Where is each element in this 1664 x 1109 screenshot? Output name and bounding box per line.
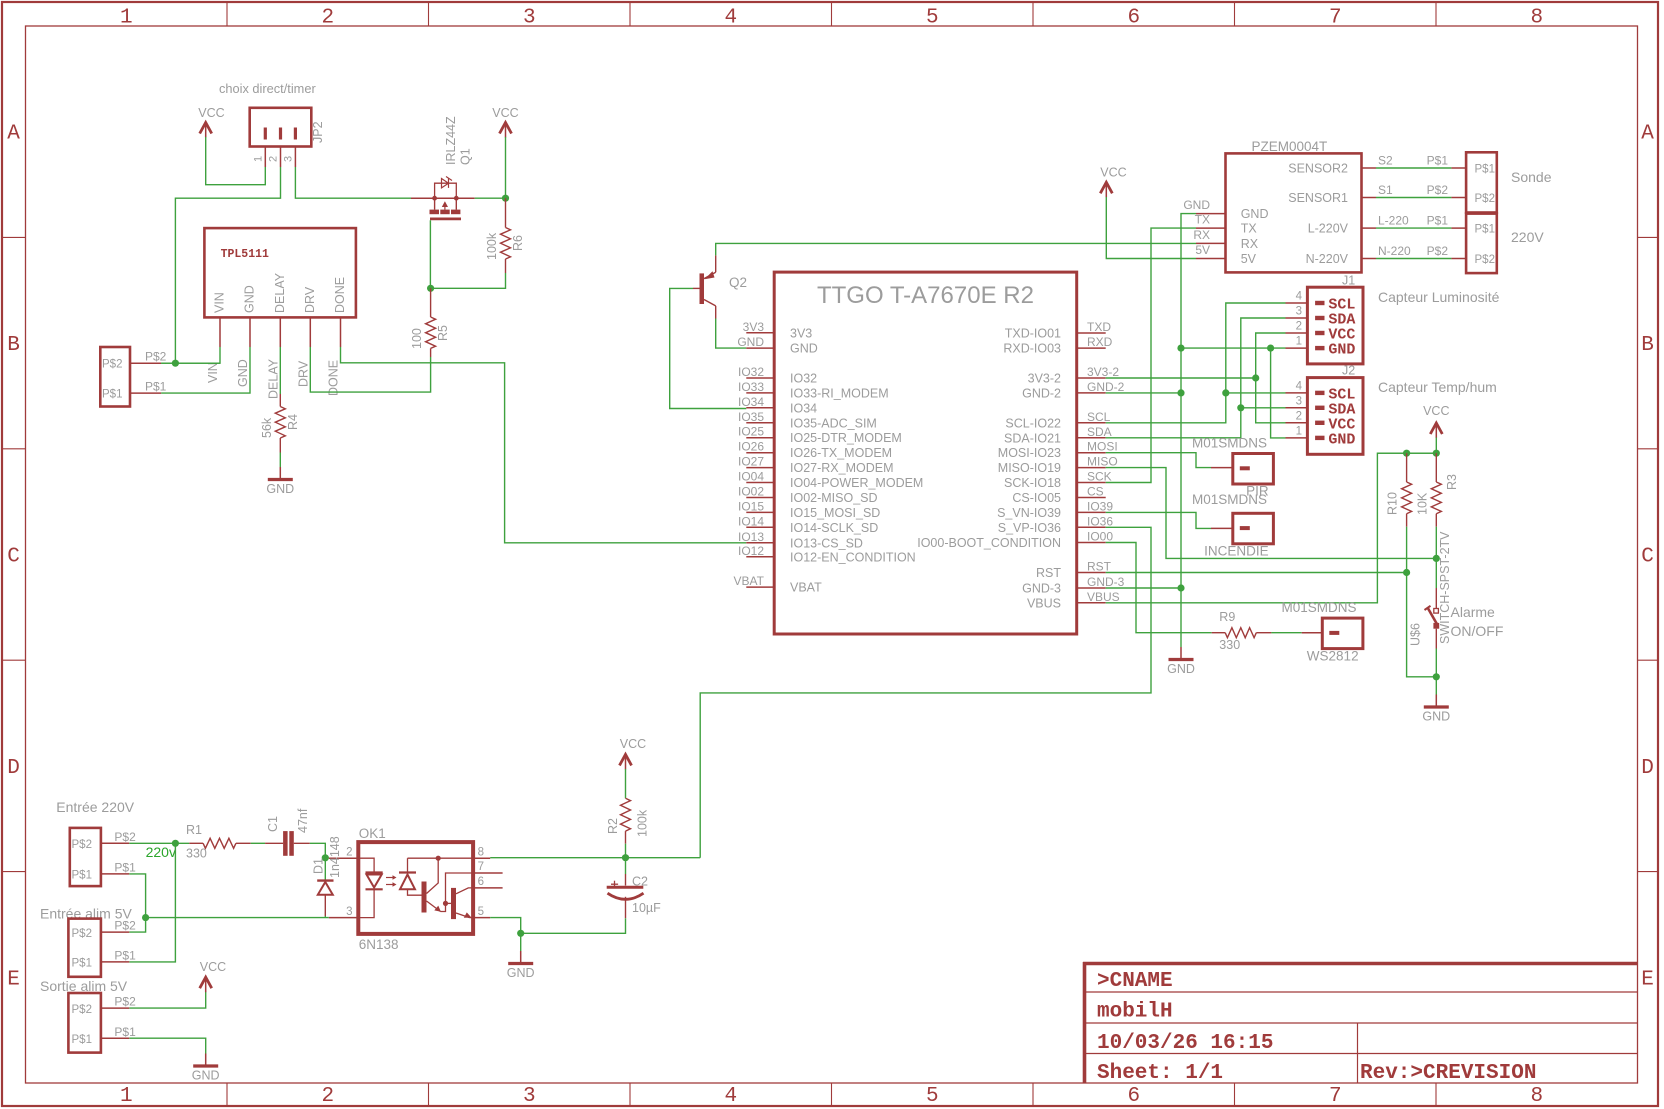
label WS2812	[1307, 649, 1359, 664]
wire GND pin to P$1 row	[161, 347, 250, 393]
wire 5V net row	[146, 917, 329, 919]
power VCC (R2)	[620, 737, 647, 769]
svg-text:IO26-TX_MODEM: IO26-TX_MODEM	[790, 446, 892, 460]
OK1 internal symbol	[358, 856, 473, 920]
svg-text:Sonde: Sonde	[1511, 169, 1552, 185]
OK1 pin 3 number	[346, 906, 352, 918]
svg-text:RXD-IO03: RXD-IO03	[1003, 342, 1061, 356]
connector PINHD left of TPL	[100, 347, 130, 407]
resistor R6	[501, 198, 511, 273]
TPL5111 DRV stub	[309, 317, 311, 347]
Q1 type label IRLZ44Z	[444, 116, 458, 165]
wire MISO net	[1106, 468, 1437, 559]
P$1 outer label (alim in)	[114, 948, 136, 962]
svg-text:mobilH: mobilH	[1097, 1001, 1173, 1024]
svg-text:IO15_MOSI_SD: IO15_MOSI_SD	[790, 506, 880, 520]
svg-text:3: 3	[346, 906, 352, 918]
R4 name	[286, 414, 300, 430]
wire C1 to D1 node	[310, 843, 326, 858]
wire P$2 to junction	[161, 362, 220, 364]
svg-text:3V3: 3V3	[743, 320, 765, 334]
IC TTGO T-A7670E R2 box	[774, 272, 1076, 634]
svg-text:1: 1	[253, 156, 265, 162]
svg-text:8: 8	[1530, 7, 1543, 30]
svg-text:3: 3	[1296, 306, 1302, 318]
svg-text:DONE: DONE	[327, 360, 341, 396]
label ON/OFF	[1451, 623, 1504, 639]
TPL5111 pin name VIN	[213, 292, 227, 313]
svg-text:choix direct/timer: choix direct/timer	[219, 81, 316, 96]
svg-text:GND: GND	[192, 1069, 220, 1083]
svg-text:VBUS: VBUS	[1087, 590, 1120, 604]
svg-text:3: 3	[523, 1085, 536, 1108]
svg-text:TTGO T-A7670E R2: TTGO T-A7670E R2	[817, 282, 1034, 309]
label Alarme	[1451, 604, 1496, 620]
JP2 pin 1 stub	[264, 147, 266, 168]
svg-text:1n4148: 1n4148	[328, 836, 342, 878]
svg-text:P$1: P$1	[145, 380, 167, 394]
svg-text:2: 2	[321, 7, 334, 30]
svg-text:GND-2: GND-2	[1022, 386, 1061, 400]
svg-text:IO00: IO00	[1087, 530, 1113, 544]
TTGO left pin IO33	[738, 380, 889, 401]
wire node to IO36 riser	[626, 857, 701, 859]
junction VCC/R3 top	[1433, 450, 1440, 457]
TPL5111 pin name DELAY	[273, 272, 287, 313]
TPL5111 pin name GND	[243, 285, 257, 313]
P$1 outer label (220V in)	[114, 860, 136, 874]
svg-text:7: 7	[1329, 7, 1342, 30]
svg-text:330: 330	[186, 847, 207, 861]
svg-text:220v: 220v	[146, 844, 176, 860]
junction MISO/R3/switch	[1433, 555, 1440, 562]
TTGO right pin IO39	[997, 499, 1113, 520]
P$1 inner label (TPL conn)	[102, 389, 122, 401]
TPL5111 outer label DRV	[296, 360, 310, 387]
P$2 wire label (220V)	[1427, 244, 1449, 258]
svg-text:J2: J2	[1342, 364, 1355, 378]
label Entree 220V	[56, 799, 134, 815]
wire R9 to WS2812	[1271, 632, 1301, 634]
OK1 pin 8 number	[478, 846, 484, 858]
svg-text:VCC: VCC	[620, 737, 646, 751]
junction VIN/JP2.2/P$2	[172, 360, 179, 367]
OK1 pin 2 number	[346, 846, 352, 858]
TTGO right pin SDA	[1004, 425, 1112, 446]
svg-text:R5: R5	[436, 325, 450, 341]
svg-text:5: 5	[926, 7, 939, 30]
svg-text:3V3: 3V3	[790, 326, 812, 340]
svg-text:SDA-IO21: SDA-IO21	[1004, 431, 1061, 445]
svg-text:RST: RST	[1036, 566, 1061, 580]
svg-text:GND: GND	[1167, 662, 1195, 676]
wire GND-3 to GND net	[1106, 587, 1181, 589]
svg-text:P$2: P$2	[72, 928, 92, 940]
svg-text:3: 3	[283, 156, 295, 162]
svg-text:5V: 5V	[1195, 243, 1210, 257]
svg-text:Q1: Q1	[459, 148, 473, 165]
svg-text:MOSI: MOSI	[1087, 440, 1118, 454]
svg-text:IO14: IO14	[738, 514, 764, 528]
svg-text:R3: R3	[1445, 474, 1459, 490]
svg-text:6: 6	[1127, 7, 1140, 30]
PZEM left pin 5V	[1195, 243, 1256, 266]
svg-text:3V3-2: 3V3-2	[1028, 372, 1061, 386]
C2 name	[632, 874, 648, 888]
svg-text:C: C	[1641, 546, 1654, 569]
svg-text:GND: GND	[236, 359, 250, 387]
label 6N138	[359, 937, 399, 952]
svg-text:VCC: VCC	[1100, 166, 1126, 180]
svg-text:S1: S1	[1378, 183, 1393, 197]
svg-text:IO02-MISO_SD: IO02-MISO_SD	[790, 491, 878, 505]
svg-text:IO27: IO27	[738, 455, 764, 469]
svg-text:IO32: IO32	[790, 372, 817, 386]
svg-text:N-220V: N-220V	[1306, 252, 1349, 266]
svg-text:C2: C2	[632, 874, 648, 888]
connector JP2	[250, 108, 312, 147]
wire S2 to Sonde	[1376, 167, 1451, 169]
wire J2 SCL branch	[1226, 392, 1286, 394]
P$2 outer label (220V in)	[114, 830, 136, 844]
svg-text:A: A	[1641, 123, 1654, 146]
svg-text:SCK: SCK	[1087, 470, 1112, 484]
svg-text:P$1: P$1	[1475, 224, 1495, 236]
svg-text:GND: GND	[1422, 710, 1450, 724]
P$1 wire label (Sonde)	[1427, 154, 1449, 168]
JP2 pin 2 stub	[280, 147, 282, 168]
svg-text:IO02: IO02	[738, 485, 764, 499]
svg-text:A: A	[7, 123, 20, 146]
svg-text:R6: R6	[511, 235, 525, 251]
svg-text:IO12: IO12	[738, 544, 764, 558]
TTGO left pin GND	[737, 335, 817, 356]
junction GND at GND-3 row	[1177, 584, 1184, 591]
TTGO left pin IO32	[738, 365, 817, 386]
title block sheet	[1097, 1062, 1223, 1085]
junction 5V net	[142, 914, 149, 921]
svg-text:P$1: P$1	[1475, 164, 1495, 176]
ground below OK1	[507, 951, 535, 980]
svg-text:P$2: P$2	[102, 359, 122, 371]
svg-text:4: 4	[1296, 380, 1303, 392]
title block document name	[1097, 1001, 1173, 1024]
R9 name	[1219, 610, 1235, 624]
junction RST/R10	[1403, 569, 1410, 576]
svg-text:2: 2	[268, 156, 280, 162]
TTGO left pin IO02	[738, 485, 878, 506]
optocoupler OK1 box	[358, 842, 473, 934]
label M01SMDNS (PIR)	[1192, 436, 1267, 451]
svg-text:5: 5	[478, 906, 484, 918]
TPL5111 outer label DELAY	[266, 358, 280, 399]
svg-text:Sheet: 1/1: Sheet: 1/1	[1097, 1062, 1223, 1085]
C1 name	[266, 816, 280, 832]
svg-text:IO00-BOOT_CONDITION: IO00-BOOT_CONDITION	[917, 536, 1061, 550]
svg-text:IO15: IO15	[738, 499, 764, 513]
P$2 outer label (TPL conn)	[145, 350, 167, 364]
connector J2	[1286, 378, 1364, 455]
svg-text:DRV: DRV	[303, 286, 317, 313]
TPL conn P$2 stub	[130, 362, 161, 364]
svg-text:7: 7	[1329, 1085, 1342, 1108]
svg-text:IO27-RX_MODEM: IO27-RX_MODEM	[790, 461, 894, 475]
TTGO left pin IO26	[738, 440, 892, 461]
TTGO right pin CS	[1012, 485, 1105, 506]
wire R2 bottom to node	[625, 844, 627, 858]
R1 name	[186, 823, 202, 837]
PZEM right pin S1	[1288, 183, 1393, 205]
TTGO right pin SCL	[1005, 410, 1110, 431]
svg-text:P$2: P$2	[1427, 244, 1449, 258]
wire J2 GND branch	[1271, 348, 1286, 438]
PZEM left pin GND	[1183, 198, 1268, 221]
connector Sonde	[1451, 152, 1496, 212]
TPL5111 outer label DONE	[327, 360, 341, 396]
wire VCC to R2	[625, 769, 627, 798]
svg-text:Capteur Luminosité: Capteur Luminosité	[1378, 289, 1500, 305]
TTGO right pin SCK	[1004, 470, 1112, 491]
P$2 outer label (alim in)	[114, 919, 136, 933]
R9 value 330	[1219, 638, 1240, 652]
wire node to D1	[324, 858, 326, 880]
svg-text:IO12-EN_CONDITION: IO12-EN_CONDITION	[790, 550, 916, 564]
svg-text:VIN: VIN	[206, 362, 220, 383]
wire Q2 collector to PZEM RX	[716, 243, 1196, 255]
svg-text:10µF: 10µF	[632, 901, 661, 915]
TTGO left pin IO34	[738, 395, 817, 416]
svg-text:DRV: DRV	[296, 360, 310, 387]
R3 name	[1445, 474, 1459, 490]
svg-text:MISO: MISO	[1087, 455, 1118, 469]
svg-text:GND: GND	[790, 342, 818, 356]
svg-text:S_VP-IO36: S_VP-IO36	[998, 521, 1061, 535]
svg-text:C: C	[7, 546, 20, 569]
wire OK1.5 to GND	[490, 918, 521, 934]
wire sortie P$1 to GND	[129, 1038, 205, 1053]
svg-text:Capteur Temp/hum: Capteur Temp/hum	[1378, 379, 1497, 395]
connector Entree alim 5V	[68, 919, 129, 977]
junction SDA / J2.3	[1237, 404, 1244, 411]
svg-text:47nf: 47nf	[296, 808, 310, 833]
title block revision	[1360, 1062, 1536, 1085]
wire JP2.3 to Q1	[295, 167, 411, 198]
svg-text:VIN: VIN	[213, 292, 227, 313]
svg-text:VCC: VCC	[1423, 404, 1449, 418]
svg-text:R10: R10	[1386, 492, 1400, 515]
D1 value 1n4148	[328, 836, 342, 878]
PZEM title	[1252, 139, 1328, 154]
svg-text:TX: TX	[1241, 222, 1258, 236]
junction SCL / J2.4	[1222, 389, 1229, 396]
capacitor C2	[607, 874, 644, 918]
svg-text:10K: 10K	[1416, 492, 1430, 515]
svg-text:Q2: Q2	[729, 275, 747, 290]
TTGO right pin RXD	[1003, 335, 1112, 356]
svg-text:IO04: IO04	[738, 470, 764, 484]
svg-text:OK1: OK1	[359, 826, 386, 841]
junction J GND branch	[1267, 345, 1274, 352]
IC TPL5111 name	[221, 248, 269, 261]
svg-text:S_VN-IO39: S_VN-IO39	[997, 506, 1061, 520]
ground below GND net	[1167, 647, 1195, 676]
svg-text:6: 6	[1127, 1085, 1140, 1108]
wire GND-2 to GND net	[1106, 392, 1181, 394]
TTGO left pin VBAT	[734, 574, 823, 595]
svg-text:IO34: IO34	[738, 395, 764, 409]
wire R6 bottom to gate junction	[431, 273, 506, 288]
PZEM left pin RX	[1193, 228, 1258, 251]
svg-text:100: 100	[410, 328, 424, 349]
label 220V	[1511, 229, 1544, 245]
label J2	[1342, 364, 1355, 378]
module PIR M01SMDNS	[1211, 454, 1273, 485]
svg-text:R2: R2	[606, 818, 620, 834]
svg-text:GND-2: GND-2	[1087, 380, 1125, 394]
PZEM left pin TX	[1195, 213, 1258, 236]
wire node to OK1 pin2	[325, 857, 329, 859]
svg-text:P$2: P$2	[145, 350, 167, 364]
svg-text:L-220: L-220	[1378, 214, 1409, 228]
wire PZEM TX to SCK	[1106, 228, 1196, 482]
wire S1 to Sonde	[1376, 197, 1451, 199]
svg-text:220V: 220V	[1511, 229, 1544, 245]
PZEM right pin N-220	[1306, 244, 1411, 266]
svg-text:P$2: P$2	[1475, 193, 1495, 205]
OK1 pin 5 number	[478, 906, 484, 918]
P$2 wire label (Sonde)	[1427, 183, 1449, 197]
wire IO36 net	[700, 527, 1151, 857]
resistor R1	[189, 838, 250, 848]
svg-text:R4: R4	[286, 414, 300, 430]
TTGO right pin MISO	[998, 455, 1118, 476]
R5 value 100	[410, 328, 424, 349]
Q1 name label	[459, 148, 473, 165]
junction gate/R5/R6	[427, 285, 434, 292]
C2 value 10uF	[632, 901, 661, 915]
svg-text:TXD: TXD	[1087, 320, 1111, 334]
svg-text:DONE: DONE	[333, 277, 347, 313]
svg-text:1: 1	[1296, 336, 1302, 348]
power VCC (sortie)	[200, 960, 227, 992]
TTGO left pin IO13	[738, 530, 863, 551]
svg-text:4: 4	[724, 7, 737, 30]
svg-text:VBAT: VBAT	[734, 574, 765, 588]
svg-text:2: 2	[321, 1085, 334, 1108]
svg-text:P$1: P$1	[114, 1025, 136, 1039]
svg-text:IO33: IO33	[738, 380, 764, 394]
svg-text:E: E	[1641, 968, 1654, 991]
wire R4 to GND	[279, 453, 281, 468]
svg-text:IO32: IO32	[738, 365, 764, 379]
TPL5111 VIN stub	[219, 317, 221, 347]
R5 name	[436, 325, 450, 341]
svg-text:TX: TX	[1195, 213, 1210, 227]
wire R1 to C1	[251, 842, 265, 844]
svg-text:WS2812: WS2812	[1307, 649, 1359, 664]
TPL conn P$1 stub	[130, 392, 161, 394]
wire VCC to Q1 junction	[505, 137, 507, 198]
OK1 pin 6 number	[478, 876, 484, 888]
svg-text:TXD-IO01: TXD-IO01	[1005, 327, 1061, 341]
svg-text:330: 330	[1219, 638, 1240, 652]
svg-text:P$2: P$2	[114, 830, 136, 844]
wire PZEM GND down	[1181, 214, 1196, 647]
R1 value 330	[186, 847, 207, 861]
wire node to Entree alim P$2	[129, 918, 145, 933]
svg-text:CS: CS	[1087, 485, 1104, 499]
svg-text:SCK-IO18: SCK-IO18	[1004, 476, 1061, 490]
TPL5111 outer label GND	[236, 359, 250, 387]
svg-text:P$2: P$2	[1475, 254, 1495, 266]
svg-text:IO13: IO13	[738, 530, 764, 544]
resistor R2	[621, 798, 631, 843]
svg-text:4: 4	[1296, 291, 1303, 303]
TPL5111 outer label VIN	[206, 362, 220, 383]
power VCC (alarm divider)	[1423, 404, 1449, 438]
svg-text:6: 6	[478, 876, 484, 888]
svg-text:SCL: SCL	[1087, 410, 1111, 424]
svg-text:GND-3: GND-3	[1087, 575, 1125, 589]
svg-text:IO25-DTR_MODEM: IO25-DTR_MODEM	[790, 431, 902, 445]
svg-text:Sortie alim 5V: Sortie alim 5V	[40, 978, 128, 994]
svg-text:P$1: P$1	[114, 948, 136, 962]
wire switch to GND node	[1435, 649, 1437, 677]
TTGO right pin RST	[1036, 560, 1112, 581]
svg-text:8: 8	[478, 846, 484, 858]
TPL5111 pin name DONE	[333, 277, 347, 313]
label OK1	[359, 826, 386, 841]
junction GND at J1 GND row	[1177, 345, 1184, 352]
svg-text:MOSI-IO23: MOSI-IO23	[998, 446, 1061, 460]
svg-text:SENSOR2: SENSOR2	[1288, 162, 1348, 176]
svg-text:P$1: P$1	[72, 1034, 92, 1046]
svg-text:M01SMDNS: M01SMDNS	[1282, 600, 1357, 615]
wire node to C2	[625, 858, 627, 874]
svg-text:P$1: P$1	[1427, 214, 1449, 228]
module INCENDIE M01SMDNS	[1211, 513, 1273, 544]
label INCENDIE	[1204, 544, 1269, 559]
connector J1	[1286, 287, 1364, 364]
svg-text:7: 7	[478, 861, 484, 873]
JP2 pin 1 number	[253, 156, 265, 162]
TTGO left pin IO25	[738, 425, 902, 446]
svg-text:GND: GND	[1328, 431, 1355, 448]
svg-text:2: 2	[1296, 321, 1302, 333]
svg-text:J1: J1	[1342, 274, 1355, 288]
label Sonde	[1511, 169, 1552, 185]
svg-text:P$1: P$1	[114, 860, 136, 874]
svg-text:M01SMDNS: M01SMDNS	[1192, 436, 1267, 451]
svg-text:VCC: VCC	[200, 960, 226, 974]
svg-text:100k: 100k	[485, 232, 499, 260]
R6 value 100k	[485, 232, 499, 260]
svg-text:N-220: N-220	[1378, 244, 1411, 258]
P$1 wire label (220V)	[1427, 214, 1449, 228]
svg-text:Rev:>CREVISION: Rev:>CREVISION	[1360, 1062, 1536, 1085]
svg-text:GND: GND	[737, 335, 764, 349]
svg-text:TPL5111: TPL5111	[221, 248, 269, 261]
label PIR	[1246, 484, 1269, 499]
wire J1 VCC branch	[1256, 333, 1286, 423]
TTGO right pin TXD	[1005, 320, 1112, 341]
svg-text:VBUS: VBUS	[1027, 596, 1061, 610]
svg-text:L-220V: L-220V	[1308, 222, 1349, 236]
diode D1	[317, 881, 333, 916]
svg-text:U$6: U$6	[1409, 623, 1423, 646]
transistor Q1 IRLZ44Z MOSFET	[411, 177, 475, 219]
svg-text:5V: 5V	[1241, 252, 1257, 266]
